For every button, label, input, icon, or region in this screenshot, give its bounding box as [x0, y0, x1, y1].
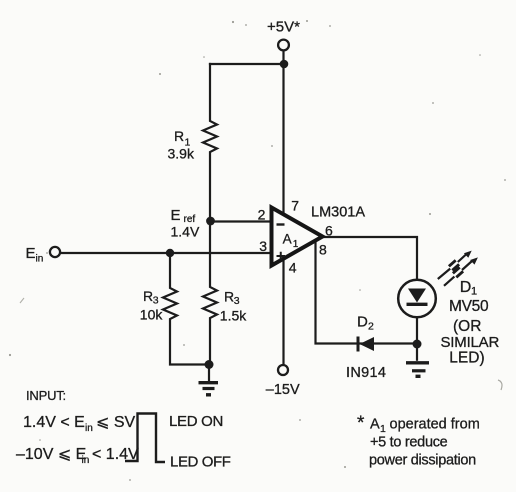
svg-text:3: 3 — [153, 295, 159, 307]
svg-text:3.9k: 3.9k — [168, 145, 195, 161]
svg-text:R: R — [224, 288, 234, 304]
svg-text:MV50: MV50 — [449, 298, 489, 315]
svg-text:E: E — [26, 245, 36, 262]
svg-text:R: R — [143, 288, 153, 304]
svg-text:LED OFF: LED OFF — [170, 453, 231, 470]
svg-text:1.4V < E: 1.4V < E — [23, 414, 85, 431]
svg-text:–10V ⩽ E: –10V ⩽ E — [16, 446, 86, 463]
svg-text:–15V: –15V — [266, 382, 300, 398]
svg-text:⩽ SV: ⩽ SV — [96, 414, 136, 431]
svg-text:SIMILAR: SIMILAR — [441, 334, 500, 351]
svg-text:E: E — [171, 207, 181, 224]
svg-text:in: in — [85, 423, 93, 434]
svg-text:1.4V: 1.4V — [171, 223, 200, 239]
svg-text:R: R — [174, 128, 184, 144]
svg-text:2: 2 — [368, 321, 374, 333]
svg-text:A: A — [283, 231, 292, 246]
svg-text:operated from: operated from — [390, 417, 480, 433]
svg-text:power dissipation: power dissipation — [369, 452, 476, 468]
svg-text:4: 4 — [289, 260, 297, 276]
svg-text:8: 8 — [319, 242, 327, 258]
svg-text:1.5k: 1.5k — [220, 308, 247, 324]
svg-text:LM301A: LM301A — [311, 204, 365, 220]
svg-text:*: * — [357, 413, 365, 434]
svg-text:3: 3 — [259, 238, 267, 254]
svg-text:(OR: (OR — [453, 318, 481, 335]
svg-text:INPUT:: INPUT: — [26, 388, 66, 403]
svg-text:D: D — [460, 279, 472, 296]
svg-text:2: 2 — [258, 206, 266, 222]
svg-text:IN914: IN914 — [346, 365, 386, 381]
svg-text:1: 1 — [293, 239, 299, 250]
svg-text:in: in — [36, 254, 44, 265]
svg-text:6: 6 — [325, 223, 333, 239]
svg-text:7: 7 — [291, 197, 299, 213]
svg-text:LED ON: LED ON — [169, 413, 223, 430]
svg-text:< 1.4V: < 1.4V — [92, 446, 139, 463]
svg-text:10k: 10k — [140, 307, 164, 323]
svg-text:1: 1 — [380, 423, 386, 435]
svg-text:1: 1 — [471, 286, 477, 298]
svg-text:3: 3 — [234, 295, 240, 307]
svg-text:in: in — [82, 455, 90, 466]
svg-text:LED): LED) — [449, 350, 484, 367]
svg-text:A: A — [370, 417, 380, 433]
svg-text:+5 to reduce: +5 to reduce — [370, 435, 448, 451]
svg-text:D: D — [357, 314, 368, 331]
svg-text:+5V*: +5V* — [267, 19, 300, 36]
